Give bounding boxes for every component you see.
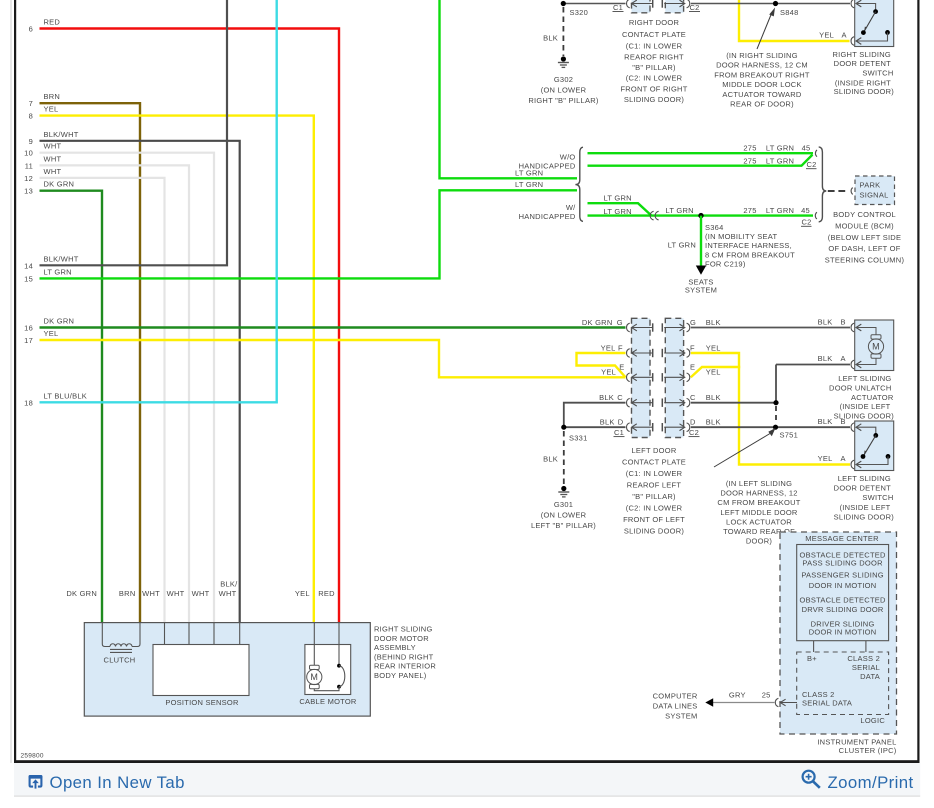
svg-text:BODY CONTROL: BODY CONTROL	[833, 210, 896, 219]
svg-text:WHT: WHT	[44, 142, 62, 151]
svg-text:REAR OF DOOR): REAR OF DOOR)	[730, 100, 794, 109]
svg-text:CLASS 2: CLASS 2	[802, 690, 835, 699]
svg-text:F: F	[618, 344, 623, 353]
svg-text:BLK/WHT: BLK/WHT	[44, 130, 79, 139]
svg-text:BLK: BLK	[600, 418, 615, 427]
svg-text:CONTACT PLATE: CONTACT PLATE	[622, 30, 686, 39]
svg-text:SLIDING DOOR): SLIDING DOOR)	[624, 95, 685, 104]
svg-text:BLK: BLK	[818, 417, 833, 426]
svg-text:C2: C2	[807, 160, 817, 169]
svg-text:LEFT "B" PILLAR): LEFT "B" PILLAR)	[531, 521, 596, 530]
svg-text:Open In New Tab: Open In New Tab	[50, 773, 185, 792]
svg-text:LOGIC: LOGIC	[860, 716, 885, 725]
svg-text:(ON LOWER: (ON LOWER	[541, 86, 587, 95]
svg-text:BRN: BRN	[119, 589, 136, 598]
svg-text:DOOR DETENT: DOOR DETENT	[834, 484, 892, 493]
svg-text:RIGHT SLIDING: RIGHT SLIDING	[374, 625, 433, 634]
svg-text:(C2: IN LOWER: (C2: IN LOWER	[626, 504, 683, 513]
svg-text:BLK: BLK	[706, 318, 721, 327]
svg-text:SWITCH: SWITCH	[862, 493, 893, 502]
svg-text:(IN RIGHT SLIDING: (IN RIGHT SLIDING	[726, 51, 798, 60]
svg-text:COMPUTER: COMPUTER	[653, 692, 698, 701]
svg-text:12: 12	[24, 174, 33, 183]
svg-text:9: 9	[29, 137, 33, 146]
svg-text:C: C	[617, 393, 623, 402]
svg-text:A: A	[842, 31, 847, 40]
svg-text:Zoom/Print: Zoom/Print	[828, 773, 914, 792]
svg-text:18: 18	[24, 398, 33, 407]
svg-text:E: E	[690, 362, 695, 371]
svg-text:LT GRN: LT GRN	[666, 206, 694, 215]
svg-text:BLK: BLK	[818, 354, 833, 363]
svg-text:YEL: YEL	[706, 368, 721, 377]
svg-text:RED: RED	[44, 18, 61, 27]
svg-text:C: C	[690, 393, 696, 402]
svg-text:M: M	[310, 672, 318, 682]
svg-text:YEL: YEL	[601, 344, 616, 353]
svg-text:(ON LOWER: (ON LOWER	[541, 511, 587, 520]
svg-text:PASS SLIDING DOOR: PASS SLIDING DOOR	[802, 559, 883, 568]
svg-text:DOOR MOTOR: DOOR MOTOR	[374, 634, 429, 643]
svg-text:DK GRN: DK GRN	[44, 180, 75, 189]
svg-text:BLK: BLK	[706, 418, 721, 427]
svg-text:7: 7	[29, 99, 33, 108]
svg-text:SIGNAL: SIGNAL	[860, 191, 889, 200]
svg-text:YEL: YEL	[601, 368, 616, 377]
svg-text:RIGHT DOOR: RIGHT DOOR	[629, 18, 680, 27]
svg-text:DOOR HARNESS, 12: DOOR HARNESS, 12	[720, 489, 797, 498]
svg-text:8: 8	[29, 112, 33, 121]
svg-text:DOOR UNLATCH: DOOR UNLATCH	[829, 383, 891, 392]
svg-text:WHT: WHT	[44, 154, 62, 163]
svg-text:HANDICAPPED: HANDICAPPED	[519, 212, 576, 221]
svg-text:MESSAGE CENTER: MESSAGE CENTER	[805, 534, 879, 543]
svg-text:G302: G302	[554, 75, 573, 84]
svg-text:CLUSTER (IPC): CLUSTER (IPC)	[839, 746, 897, 755]
svg-text:W/O: W/O	[560, 152, 576, 161]
svg-text:ASSEMBLY: ASSEMBLY	[374, 643, 416, 652]
svg-text:LEFT SLIDING: LEFT SLIDING	[838, 474, 891, 483]
svg-text:LT GRN: LT GRN	[766, 143, 794, 152]
svg-text:MODULE (BCM): MODULE (BCM)	[835, 222, 894, 231]
svg-text:SLIDING DOOR): SLIDING DOOR)	[834, 87, 895, 96]
svg-text:BLK/WHT: BLK/WHT	[44, 254, 79, 263]
svg-text:GRY: GRY	[729, 691, 746, 700]
svg-text:S331: S331	[569, 434, 588, 443]
svg-text:C2: C2	[802, 218, 812, 227]
svg-text:YEL: YEL	[44, 105, 59, 114]
svg-text:WHT: WHT	[192, 589, 210, 598]
svg-text:STEERING COLUMN): STEERING COLUMN)	[825, 256, 905, 265]
svg-text:DOOR IN MOTION: DOOR IN MOTION	[809, 628, 877, 637]
svg-text:DK GRN: DK GRN	[66, 589, 97, 598]
svg-text:YEL: YEL	[818, 454, 833, 463]
svg-text:25: 25	[762, 691, 771, 700]
svg-text:LEFT MIDDLE DOOR: LEFT MIDDLE DOOR	[720, 508, 798, 517]
svg-text:45: 45	[802, 143, 811, 152]
svg-text:DOOR HARNESS, 12 CM: DOOR HARNESS, 12 CM	[716, 61, 808, 70]
svg-text:10: 10	[24, 149, 33, 158]
svg-text:SLIDING DOOR): SLIDING DOOR)	[624, 527, 685, 536]
svg-text:A: A	[841, 454, 846, 463]
svg-text:ACTUATOR: ACTUATOR	[851, 393, 894, 402]
svg-text:DOOR DETENT: DOOR DETENT	[834, 59, 892, 68]
svg-text:LT GRN: LT GRN	[766, 206, 794, 215]
svg-text:OBSTACLE DETECTED: OBSTACLE DETECTED	[799, 596, 886, 605]
svg-text:SWITCH: SWITCH	[862, 68, 893, 77]
svg-text:(C2: IN LOWER: (C2: IN LOWER	[626, 74, 683, 83]
svg-text:C2: C2	[690, 3, 700, 12]
svg-text:DOOR): DOOR)	[746, 537, 773, 546]
svg-text:PASSENGER SLIDING: PASSENGER SLIDING	[801, 571, 883, 580]
svg-text:S848: S848	[780, 8, 799, 17]
svg-text:D: D	[618, 418, 624, 427]
svg-text:(BEHIND RIGHT: (BEHIND RIGHT	[374, 652, 434, 661]
svg-text:16: 16	[24, 324, 33, 333]
svg-text:CLUTCH: CLUTCH	[104, 656, 136, 665]
svg-text:LT GRN: LT GRN	[668, 241, 696, 250]
svg-text:(IN LEFT SLIDING: (IN LEFT SLIDING	[726, 479, 792, 488]
svg-text:C1: C1	[614, 428, 624, 437]
svg-text:S364: S364	[705, 223, 724, 232]
svg-text:YEL: YEL	[295, 589, 310, 598]
svg-text:DRVR SLIDING DOOR: DRVR SLIDING DOOR	[802, 605, 884, 614]
svg-text:DATA: DATA	[860, 672, 880, 681]
svg-text:A: A	[841, 354, 846, 363]
svg-text:WHT: WHT	[142, 589, 160, 598]
svg-text:E: E	[619, 362, 624, 371]
svg-text:14: 14	[24, 261, 33, 270]
svg-text:YEL: YEL	[706, 344, 721, 353]
svg-text:RIGHT "B" PILLAR): RIGHT "B" PILLAR)	[528, 96, 599, 105]
svg-text:259800: 259800	[21, 753, 44, 760]
svg-text:SYSTEM: SYSTEM	[685, 286, 717, 295]
svg-text:LOCK ACTUATOR: LOCK ACTUATOR	[726, 517, 792, 526]
svg-text:LT GRN: LT GRN	[515, 168, 543, 177]
svg-text:(INSIDE LEFT: (INSIDE LEFT	[840, 402, 891, 411]
svg-text:G: G	[617, 318, 623, 327]
svg-text:REAROF RIGHT: REAROF RIGHT	[624, 52, 684, 61]
svg-text:D: D	[690, 418, 696, 427]
svg-text:DOOR IN MOTION: DOOR IN MOTION	[809, 581, 877, 590]
svg-text:8 CM FROM BREAKOUT: 8 CM FROM BREAKOUT	[705, 250, 795, 259]
svg-text:B+: B+	[807, 654, 817, 663]
svg-text:BRN: BRN	[44, 92, 61, 101]
svg-text:BLK: BLK	[599, 393, 614, 402]
svg-text:MIDDLE DOOR LOCK: MIDDLE DOOR LOCK	[722, 80, 801, 89]
svg-text:13: 13	[24, 187, 33, 196]
svg-text:45: 45	[801, 206, 810, 215]
svg-text:FROM BREAKOUT RIGHT: FROM BREAKOUT RIGHT	[714, 70, 810, 79]
svg-text:M: M	[872, 342, 880, 352]
svg-text:DK GRN: DK GRN	[582, 318, 613, 327]
svg-text:11: 11	[25, 161, 33, 170]
svg-text:BLK: BLK	[818, 318, 833, 327]
svg-text:RED: RED	[318, 589, 335, 598]
svg-text:DATA LINES: DATA LINES	[653, 702, 698, 711]
svg-text:WHT: WHT	[219, 589, 237, 598]
svg-text:BLK: BLK	[543, 454, 558, 463]
svg-text:LT GRN: LT GRN	[515, 180, 543, 189]
svg-text:OF DASH, LEFT OF: OF DASH, LEFT OF	[828, 244, 900, 253]
svg-text:(C1: IN LOWER: (C1: IN LOWER	[626, 42, 683, 51]
svg-text:REAROF LEFT: REAROF LEFT	[627, 481, 682, 490]
svg-text:FOR C219): FOR C219)	[705, 260, 746, 269]
svg-text:LT GRN: LT GRN	[604, 194, 632, 203]
svg-text:FRONT OF LEFT: FRONT OF LEFT	[623, 515, 685, 524]
svg-text:WHT: WHT	[44, 167, 62, 176]
svg-text:275: 275	[743, 143, 756, 152]
svg-text:(INSIDE LEFT: (INSIDE LEFT	[840, 503, 891, 512]
svg-text:LT GRN: LT GRN	[766, 156, 794, 165]
svg-text:WHT: WHT	[167, 589, 185, 598]
svg-text:15: 15	[24, 274, 33, 283]
svg-text:SERIAL DATA: SERIAL DATA	[802, 699, 852, 708]
svg-text:275: 275	[743, 206, 756, 215]
svg-text:PARK: PARK	[860, 181, 881, 190]
svg-text:BLK: BLK	[706, 393, 721, 402]
svg-text:275: 275	[743, 156, 756, 165]
svg-text:(BELOW LEFT SIDE: (BELOW LEFT SIDE	[828, 233, 901, 242]
svg-text:INTERFACE HARNESS,: INTERFACE HARNESS,	[705, 241, 792, 250]
svg-text:B: B	[841, 417, 846, 426]
svg-text:17: 17	[24, 336, 33, 345]
svg-text:SLIDING DOOR): SLIDING DOOR)	[834, 513, 895, 522]
svg-text:(C1: IN LOWER: (C1: IN LOWER	[626, 469, 683, 478]
svg-text:REAR INTERIOR: REAR INTERIOR	[374, 662, 436, 671]
svg-text:"B" PILLAR): "B" PILLAR)	[632, 492, 676, 501]
svg-text:YEL: YEL	[44, 329, 59, 338]
svg-text:SYSTEM: SYSTEM	[665, 712, 697, 721]
svg-text:LEFT DOOR: LEFT DOOR	[631, 446, 676, 455]
svg-text:LT BLU/BLK: LT BLU/BLK	[44, 391, 88, 400]
svg-text:(IN MOBILITY SEAT: (IN MOBILITY SEAT	[705, 232, 777, 241]
svg-text:CM FROM BREAKOUT: CM FROM BREAKOUT	[717, 498, 800, 507]
svg-text:W/: W/	[566, 203, 576, 212]
svg-text:YEL: YEL	[819, 31, 834, 40]
svg-text:G: G	[690, 318, 696, 327]
svg-text:RIGHT SLIDING: RIGHT SLIDING	[832, 50, 891, 59]
svg-text:BLK: BLK	[543, 33, 558, 42]
svg-text:BODY PANEL): BODY PANEL)	[374, 671, 427, 680]
svg-text:B: B	[841, 318, 846, 327]
svg-text:C2: C2	[689, 428, 699, 437]
svg-text:POSITION SENSOR: POSITION SENSOR	[165, 698, 239, 707]
svg-text:LT GRN: LT GRN	[44, 267, 72, 276]
svg-text:G301: G301	[554, 500, 573, 509]
svg-text:ACTUATOR TOWARD: ACTUATOR TOWARD	[722, 90, 802, 99]
svg-text:LEFT SLIDING: LEFT SLIDING	[838, 374, 891, 383]
svg-text:S751: S751	[780, 431, 799, 440]
svg-text:DK GRN: DK GRN	[44, 317, 75, 326]
svg-text:6: 6	[29, 25, 33, 34]
svg-text:CONTACT PLATE: CONTACT PLATE	[622, 458, 686, 467]
svg-text:F: F	[690, 344, 695, 353]
svg-text:BLK/: BLK/	[220, 580, 238, 589]
svg-text:LT GRN: LT GRN	[604, 207, 632, 216]
svg-text:"B" PILLAR): "B" PILLAR)	[632, 63, 676, 72]
svg-text:CABLE MOTOR: CABLE MOTOR	[299, 697, 357, 706]
svg-text:CLASS 2: CLASS 2	[847, 654, 880, 663]
svg-text:C1: C1	[613, 3, 623, 12]
svg-text:S320: S320	[570, 8, 589, 17]
svg-text:SERIAL: SERIAL	[852, 663, 880, 672]
svg-text:INSTRUMENT PANEL: INSTRUMENT PANEL	[817, 737, 896, 746]
svg-text:FRONT OF RIGHT: FRONT OF RIGHT	[620, 84, 687, 93]
